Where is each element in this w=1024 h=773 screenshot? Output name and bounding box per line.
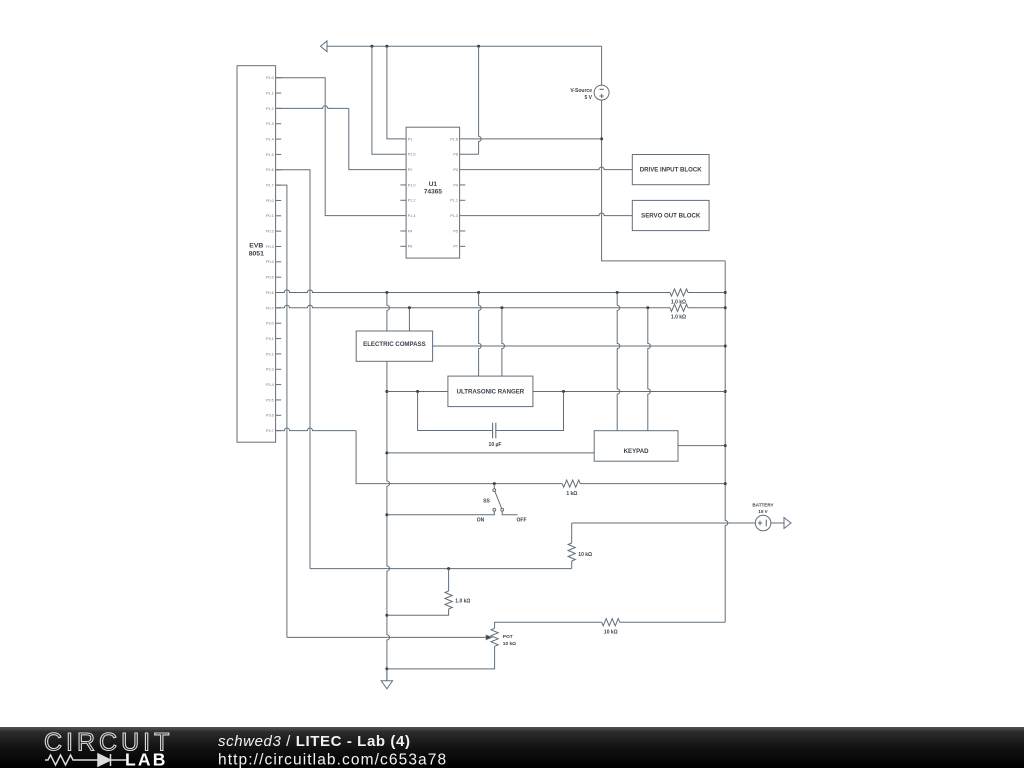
capacitor C1 10uF plates	[493, 423, 496, 439]
svg-text:15 V: 15 V	[758, 509, 768, 514]
svg-text:P3.2: P3.2	[266, 352, 274, 356]
wire EVB P1.7 down-left vertical to pot wiper line	[276, 185, 287, 637]
label BATTERY 15 V	[752, 503, 773, 515]
label ULTRASONIC RANGER	[457, 389, 525, 396]
svg-text:P1.5: P1.5	[266, 153, 274, 157]
svg-text:DRIVE INPUT BLOCK: DRIVE INPUT BLOCK	[640, 166, 703, 173]
wire V-source bottom lead down to corner then right to right rail	[602, 100, 726, 261]
wire keypad right lead to right rail	[678, 445, 725, 447]
wire EVB P1.6 down-left vertical to 10k bottom line	[276, 170, 310, 569]
svg-text:1.0 kΩ: 1.0 kΩ	[671, 299, 686, 305]
resistor R2 1.0k on P0.7 rail	[670, 304, 688, 311]
svg-text:KEYPAD: KEYPAD	[624, 448, 650, 455]
wire right rail vertical (hops battery wire)	[725, 261, 728, 622]
block SERVO OUT BLOCK	[632, 200, 709, 230]
svg-text:P3.4: P3.4	[266, 383, 274, 387]
wire V-source top lead	[601, 46, 603, 85]
block DRIVE INPUT BLOCK	[632, 155, 709, 185]
svg-text:SERVO OUT BLOCK: SERVO OUT BLOCK	[641, 212, 701, 219]
svg-text:P9: P9	[453, 183, 458, 187]
wire U1 P3 to DRIVE INPUT BLOCK (hops V-source vertical)	[460, 167, 633, 170]
svg-text:P0.5: P0.5	[266, 276, 274, 280]
svg-text:P1.1: P1.1	[266, 91, 274, 95]
label R6 10 k&#937;	[604, 629, 618, 635]
U1 right pin labels	[450, 137, 458, 248]
svg-text:ELECTRIC COMPASS: ELECTRIC COMPASS	[363, 341, 426, 348]
wire switch OFF throw stub	[502, 511, 517, 515]
wire P0.7 rail (hops P1.7/P1.6 verticals)	[276, 305, 726, 308]
wire compass right to right rail	[433, 345, 726, 347]
wire pot-top line to right rail	[620, 621, 726, 623]
EVB pin stubs	[276, 78, 282, 431]
voltage source V-Source 5V	[594, 85, 609, 100]
svg-text:P1: P1	[408, 137, 413, 141]
svg-text:P1.3: P1.3	[266, 122, 274, 126]
svg-text:V-Source: V-Source	[570, 88, 592, 94]
resistor R5 1.0k vertical	[445, 591, 452, 609]
label R2 1.0 k&#937;	[671, 315, 686, 321]
svg-text:POT: POT	[503, 634, 513, 640]
label C1 10 &#181;F	[489, 442, 502, 448]
svg-text:P5: P5	[453, 229, 458, 233]
CircuitLab logo	[44, 729, 173, 757]
resistor R1 1.0k on P0.6 rail	[670, 289, 688, 296]
switch SS lever and contacts	[493, 484, 504, 512]
battery BATTERY 15V	[755, 515, 771, 531]
label ON	[477, 517, 485, 523]
node dot 1.0k top junction	[447, 567, 450, 570]
wire capacitor left branch	[418, 392, 492, 431]
wire rail2 to compass top	[408, 308, 410, 331]
svg-text:P3.5: P3.5	[266, 398, 274, 402]
svg-text:P2: P2	[408, 168, 413, 172]
label EVB 8051	[249, 242, 264, 257]
svg-text:P1.4: P1.4	[408, 214, 416, 218]
wire U1 P1.3 to SERVO OUT BLOCK (hops V-source vertical)	[460, 213, 633, 216]
svg-text:P0.1: P0.1	[266, 214, 274, 218]
wire U1 P8 up to top rail (hops P1.6 wire)	[460, 46, 482, 154]
svg-text:ULTRASONIC RANGER: ULTRASONIC RANGER	[457, 389, 525, 396]
footer bar	[0, 727, 1024, 768]
pot wiper arrow	[486, 635, 491, 639]
svg-text:P0.4: P0.4	[266, 260, 274, 264]
wire switch ON throw to compass-bottom vertical	[387, 511, 494, 515]
wire 10k top lead	[571, 523, 573, 543]
wire capacitor right branch	[496, 392, 563, 431]
wire 10k bottom lead	[571, 561, 573, 569]
svg-text:P8: P8	[453, 153, 458, 157]
node dot switch common	[493, 482, 496, 485]
node output flag (right-pointing terminal)	[784, 518, 791, 529]
wire 10k bottom line to P1.6 vertical	[310, 568, 572, 570]
EVB pin labels P1.0-P3.7	[266, 76, 274, 433]
label DRIVE INPUT BLOCK	[640, 166, 703, 173]
U1 unconnected pin stubs	[400, 185, 465, 246]
svg-text:10 kΩ: 10 kΩ	[503, 641, 516, 647]
svg-text:P0.2: P0.2	[266, 230, 274, 234]
svg-text:SS: SS	[483, 498, 490, 504]
resistor R6 10k horizontal on pot-top line	[602, 619, 620, 626]
svg-text:P3.3: P3.3	[266, 368, 274, 372]
label ELECTRIC COMPASS	[363, 341, 426, 348]
resistor R3 1k on switch line	[562, 480, 580, 487]
wire EVB P1.0 to U1 P1.4 (via vertical)	[276, 78, 407, 216]
wire rail1 to keypad top (hops rail2, compass, ranger wires)	[617, 293, 620, 431]
svg-text:BATTERY: BATTERY	[752, 503, 773, 508]
wire rail2 to keypad top (hops compass, ranger wires)	[648, 308, 651, 431]
wire switch line right segment to right rail	[580, 483, 725, 485]
svg-text:P7: P7	[453, 245, 458, 249]
wire P0.6 rail (hops P1.7/P1.6 verticals)	[276, 290, 726, 293]
svg-text:P1.7: P1.7	[266, 184, 274, 188]
wire 1.0k bottom lead and line to vertical	[387, 609, 449, 615]
svg-text:P0.6: P0.6	[266, 291, 274, 295]
wire top rail to U1 P1.5	[372, 46, 406, 154]
svg-text:http://circuitlab.com/c653a78: http://circuitlab.com/c653a78	[218, 752, 447, 769]
label R5 1.0 k&#937;	[455, 599, 470, 605]
svg-text:P0.3: P0.3	[266, 245, 274, 249]
wire ranger left lead	[387, 391, 448, 393]
ground	[381, 669, 392, 689]
block ELECTRIC COMPASS	[356, 331, 432, 361]
svg-text:P1.3: P1.3	[450, 214, 458, 218]
svg-text:LAB: LAB	[125, 750, 168, 769]
svg-text:P3.7: P3.7	[266, 429, 274, 433]
wire pot wiper line from P1.7 vertical	[287, 636, 487, 638]
wire ranger right lead to right rail	[533, 391, 725, 393]
wire rail1 to ranger top (hops rail2, compass wire)	[479, 293, 482, 377]
potentiometer POT 10k	[491, 628, 498, 646]
svg-text:P1.5: P1.5	[408, 153, 416, 157]
resistor R4 10k vertical	[568, 543, 575, 561]
wire keypad left lead	[387, 452, 594, 454]
svg-text:1.0 kΩ: 1.0 kΩ	[671, 315, 686, 321]
wire compass bottom vertical down to ground area (hops switch/10k/wiper lines)	[387, 361, 390, 681]
logo resistor-diode motif	[45, 754, 126, 766]
svg-text:P1.6: P1.6	[450, 137, 458, 141]
IC U1 74365	[406, 127, 460, 258]
label V-Source 5 V	[570, 88, 592, 101]
label POT 10 k&#937;	[503, 634, 516, 647]
wire U1 P1.6 to V-source vertical	[460, 138, 602, 140]
svg-text:1.0 kΩ: 1.0 kΩ	[455, 599, 470, 605]
svg-text:P0.0: P0.0	[266, 199, 274, 203]
U1 left pin labels	[408, 137, 416, 248]
wire rail1 to compass top (hops rail2)	[387, 293, 390, 332]
wire top rail to U1 P1	[387, 46, 406, 139]
svg-text:OFF: OFF	[517, 517, 527, 523]
node junction dot V-source / U1 P1.6	[600, 137, 603, 140]
node dot capacitor branch left	[416, 390, 419, 393]
label U1 74365	[424, 181, 442, 196]
svg-text:5 V: 5 V	[584, 95, 592, 101]
svg-text:P6: P6	[408, 245, 413, 249]
svg-text:P3.0: P3.0	[266, 322, 274, 326]
node junction dots on top rail	[370, 45, 480, 48]
svg-text:P1.2: P1.2	[408, 199, 416, 203]
svg-text:U1: U1	[429, 181, 438, 188]
node dots on P0.7 rail	[408, 306, 649, 309]
label R3 1 k&#937;	[566, 491, 577, 497]
wire top rail from flag to V-source	[327, 45, 602, 47]
svg-text:P3.6: P3.6	[266, 414, 274, 418]
node dots on compass-bottom vertical	[385, 390, 388, 670]
wire pot top lead to pot-top line	[495, 622, 602, 628]
svg-text:74365: 74365	[424, 189, 442, 196]
wire battery line from 10k top to battery	[572, 522, 756, 524]
label OFF	[517, 517, 527, 523]
svg-text:P1.4: P1.4	[266, 137, 274, 141]
svg-text:P1.0: P1.0	[266, 76, 274, 80]
node VCC flag (left-pointing terminal)	[321, 41, 327, 52]
svg-text:P1.6: P1.6	[266, 168, 274, 172]
svg-text:10 µF: 10 µF	[489, 442, 502, 448]
svg-text:P0.7: P0.7	[266, 306, 274, 310]
label R4 10 k&#937;	[578, 552, 592, 558]
label R1 1.0 k&#937;	[671, 299, 686, 305]
wire EVB P1.2 to U1 P2 (hops P1.0 wire)	[276, 106, 407, 170]
svg-text:10 kΩ: 10 kΩ	[578, 552, 592, 558]
IC EVB 8051 block	[237, 66, 276, 443]
label KEYPAD	[624, 448, 650, 455]
node dots on P0.6 rail	[385, 291, 618, 294]
block ULTRASONIC RANGER	[448, 376, 533, 407]
label SS	[483, 498, 490, 504]
wire 1.0k top lead	[448, 569, 450, 591]
wire battery right lead	[771, 522, 784, 524]
block KEYPAD	[594, 431, 678, 462]
wire rail2 to ranger top (hops compass wire)	[502, 308, 505, 376]
wire pot bottom lead to ground vertical	[387, 646, 495, 669]
svg-text:8051: 8051	[249, 250, 264, 257]
svg-text:EVB: EVB	[249, 242, 263, 249]
svg-text:ON: ON	[477, 517, 485, 523]
svg-text:P1.0: P1.0	[408, 183, 416, 187]
svg-text:P4: P4	[408, 229, 413, 233]
svg-text:1 kΩ: 1 kΩ	[566, 491, 577, 497]
svg-text:10 kΩ: 10 kΩ	[604, 629, 618, 635]
svg-text:schwed3 / LITEC - Lab (4): schwed3 / LITEC - Lab (4)	[218, 733, 411, 750]
svg-text:P1.2: P1.2	[266, 107, 274, 111]
wire EVB P3.7 to switch line (hops verticals)	[276, 428, 563, 484]
node dots on right rail	[724, 291, 727, 485]
label SERVO OUT BLOCK	[641, 212, 701, 219]
svg-text:P1.1: P1.1	[450, 199, 458, 203]
svg-text:P3: P3	[453, 168, 458, 172]
svg-text:P3.1: P3.1	[266, 337, 274, 341]
node dot capacitor branch right	[562, 390, 565, 393]
